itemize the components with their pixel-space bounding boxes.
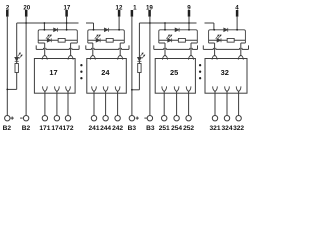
svg-text:251: 251	[159, 125, 170, 132]
svg-text:171: 171	[39, 125, 50, 132]
svg-text:32: 32	[221, 68, 229, 77]
svg-text:254: 254	[171, 125, 182, 132]
svg-text:B2: B2	[22, 125, 31, 132]
svg-text:25: 25	[170, 68, 178, 77]
svg-text:B2: B2	[3, 125, 12, 132]
svg-text:242: 242	[112, 125, 123, 132]
svg-text:172: 172	[62, 125, 73, 132]
svg-text:324: 324	[221, 125, 232, 132]
svg-text:17: 17	[49, 68, 57, 77]
svg-text:321: 321	[209, 125, 220, 132]
svg-text:252: 252	[183, 125, 194, 132]
svg-text:322: 322	[233, 125, 244, 132]
svg-text:24: 24	[101, 68, 110, 77]
svg-text:241: 241	[88, 125, 99, 132]
svg-text:B3: B3	[128, 125, 137, 132]
svg-text:244: 244	[100, 125, 111, 132]
svg-text:174: 174	[51, 125, 62, 132]
svg-text:1: 1	[133, 4, 137, 11]
svg-text:B3: B3	[146, 125, 155, 132]
